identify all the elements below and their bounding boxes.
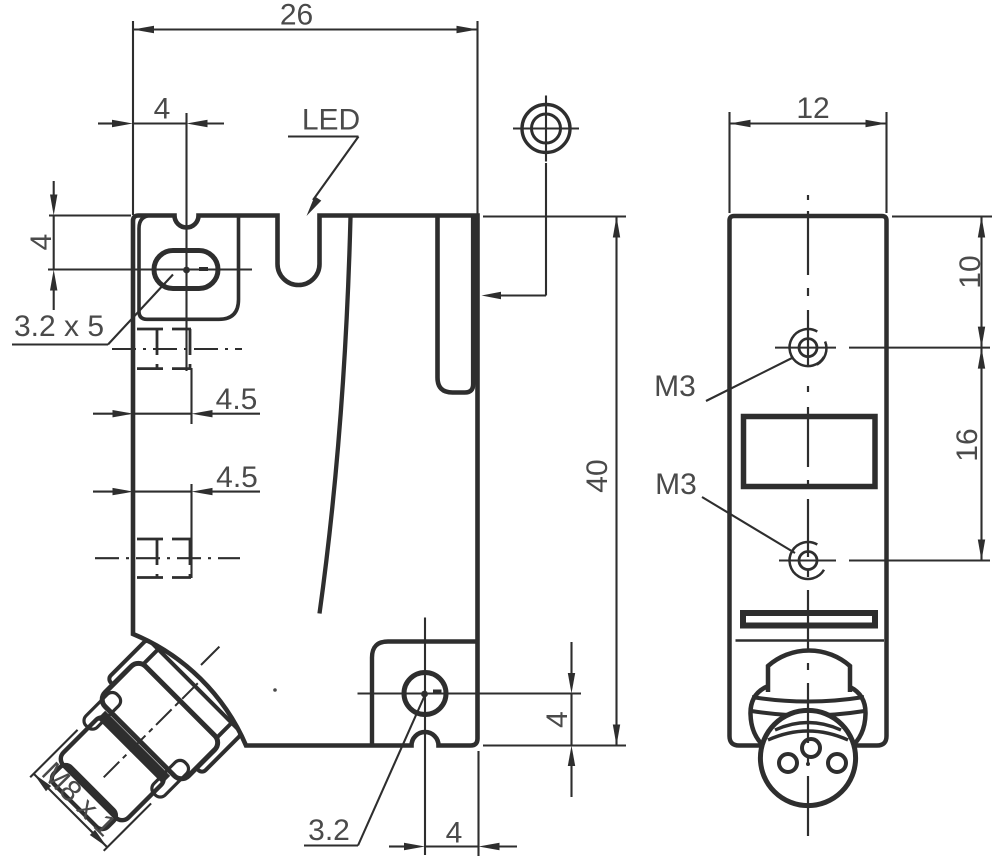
thread strips bbox=[81, 690, 123, 732]
right view center line bbox=[807, 195, 809, 836]
window slot near right edge bbox=[438, 216, 474, 393]
svg-text:4: 4 bbox=[154, 93, 171, 126]
right view connector bbox=[750, 651, 865, 806]
dimension 12 bbox=[730, 112, 887, 213]
dimension 10 bbox=[892, 217, 992, 348]
svg-text:26: 26 bbox=[280, 0, 313, 32]
body outline left view bbox=[133, 216, 478, 746]
dimension 4 right bbox=[568, 642, 575, 797]
M3 hole upper bbox=[775, 329, 990, 366]
dimension 4 top bbox=[98, 120, 224, 127]
M8 dimension bbox=[34, 774, 108, 848]
diagonal optical face line bbox=[320, 217, 351, 614]
svg-text:4: 4 bbox=[25, 234, 58, 251]
inner step bottom right bbox=[372, 642, 476, 746]
slot center dash bbox=[199, 267, 208, 271]
hidden slot lower dashed bbox=[137, 539, 191, 578]
svg-text:LED: LED bbox=[302, 104, 360, 137]
mounting lug contour bbox=[139, 216, 239, 320]
connector nut ball bbox=[750, 687, 865, 748]
M8 connector group bbox=[20, 605, 276, 861]
face chamfer arcs bbox=[775, 723, 841, 731]
svg-text:16: 16 bbox=[951, 428, 984, 461]
connector tip cap bbox=[49, 762, 120, 833]
slot center line horizontal bbox=[48, 268, 252, 270]
svg-text:M3: M3 bbox=[654, 370, 696, 403]
svg-text:M8 x 1: M8 x 1 bbox=[35, 756, 122, 843]
dimension 4 left vertical bbox=[49, 181, 131, 310]
connector axis dash inside body bbox=[201, 644, 222, 665]
svg-text:4.5: 4.5 bbox=[216, 461, 258, 494]
connector nut bbox=[98, 659, 222, 783]
svg-text:4.5: 4.5 bbox=[216, 383, 258, 416]
dimension 16 bbox=[978, 348, 985, 561]
dimension 4 bottom bbox=[389, 751, 517, 856]
svg-text:4: 4 bbox=[446, 817, 463, 850]
connector neck bbox=[141, 646, 234, 739]
svg-text:M3: M3 bbox=[655, 468, 697, 501]
svg-text:4: 4 bbox=[541, 711, 574, 728]
pins bbox=[802, 739, 820, 757]
slot 3.2x5 obround bbox=[154, 251, 218, 289]
dimension 40 bbox=[483, 217, 626, 746]
hole 3.2 center line vertical bbox=[424, 618, 426, 856]
dimension 4.5 lower bbox=[93, 484, 260, 578]
right view horizontal edge bbox=[736, 639, 885, 642]
connector tip bbox=[57, 714, 167, 824]
right view body bbox=[730, 216, 887, 746]
svg-text:12: 12 bbox=[796, 92, 829, 125]
M3 hole lower bbox=[779, 542, 990, 579]
stray dot bbox=[273, 688, 277, 692]
svg-text:40: 40 bbox=[581, 459, 614, 492]
target reference symbol bbox=[482, 96, 580, 300]
svg-text:3.2 x 5: 3.2 x 5 bbox=[14, 310, 104, 343]
connector outer collar bbox=[107, 639, 242, 774]
connector axis center line bbox=[104, 653, 228, 777]
connector dome bbox=[768, 651, 850, 692]
hidden slot lower center line bbox=[95, 557, 240, 559]
svg-text:3.2: 3.2 bbox=[308, 814, 350, 847]
dimension 4.5 upper bbox=[93, 368, 260, 424]
hole 3.2 bbox=[404, 673, 446, 715]
right view window bbox=[744, 417, 876, 487]
hidden slot upper dashed bbox=[137, 329, 191, 369]
hidden slot upper center line bbox=[112, 348, 242, 350]
slot center line vertical bbox=[185, 113, 187, 371]
dimension 26 bbox=[133, 21, 478, 215]
nut band arcs bbox=[752, 697, 864, 702]
right view thin slot bbox=[743, 613, 875, 626]
slot center dot bbox=[183, 267, 190, 274]
hole 3.2 center line horizontal bbox=[358, 692, 582, 694]
svg-text:10: 10 bbox=[954, 255, 987, 288]
dark band bbox=[97, 711, 170, 784]
connector face circle bbox=[760, 710, 855, 805]
